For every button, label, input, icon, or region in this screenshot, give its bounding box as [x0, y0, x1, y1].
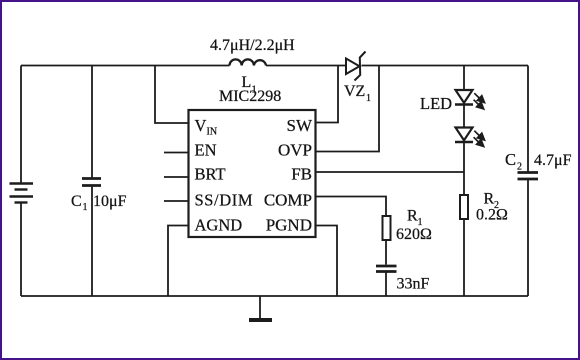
- svg-text:1: 1: [83, 202, 88, 213]
- svg-text:FB: FB: [291, 165, 312, 184]
- svg-text:620Ω: 620Ω: [396, 226, 432, 243]
- svg-text:V: V: [195, 116, 207, 135]
- svg-text:C: C: [71, 193, 82, 210]
- svg-text:MIC2298: MIC2298: [219, 88, 281, 105]
- svg-text:R: R: [484, 191, 495, 208]
- svg-text:OVP: OVP: [278, 141, 312, 160]
- svg-text:VZ: VZ: [344, 83, 365, 100]
- svg-text:AGND: AGND: [195, 216, 243, 235]
- svg-text:LED: LED: [420, 94, 452, 113]
- svg-text:R: R: [407, 208, 418, 225]
- svg-text:4.7μH/2.2μH: 4.7μH/2.2μH: [210, 37, 295, 54]
- svg-text:1: 1: [366, 93, 371, 104]
- svg-text:SS/DIM: SS/DIM: [195, 191, 254, 210]
- svg-text:10μF: 10μF: [93, 193, 127, 210]
- svg-text:BRT: BRT: [195, 165, 226, 184]
- svg-text:C: C: [505, 150, 516, 169]
- svg-text:PGND: PGND: [266, 216, 312, 235]
- svg-text:EN: EN: [195, 141, 217, 160]
- svg-text:33nF: 33nF: [397, 276, 430, 293]
- svg-text:0.2Ω: 0.2Ω: [476, 207, 508, 224]
- svg-text:2: 2: [517, 162, 522, 173]
- svg-text:4.7μF: 4.7μF: [534, 152, 572, 169]
- svg-text:COMP: COMP: [264, 191, 312, 210]
- svg-text:IN: IN: [207, 127, 218, 138]
- svg-text:SW: SW: [287, 116, 313, 135]
